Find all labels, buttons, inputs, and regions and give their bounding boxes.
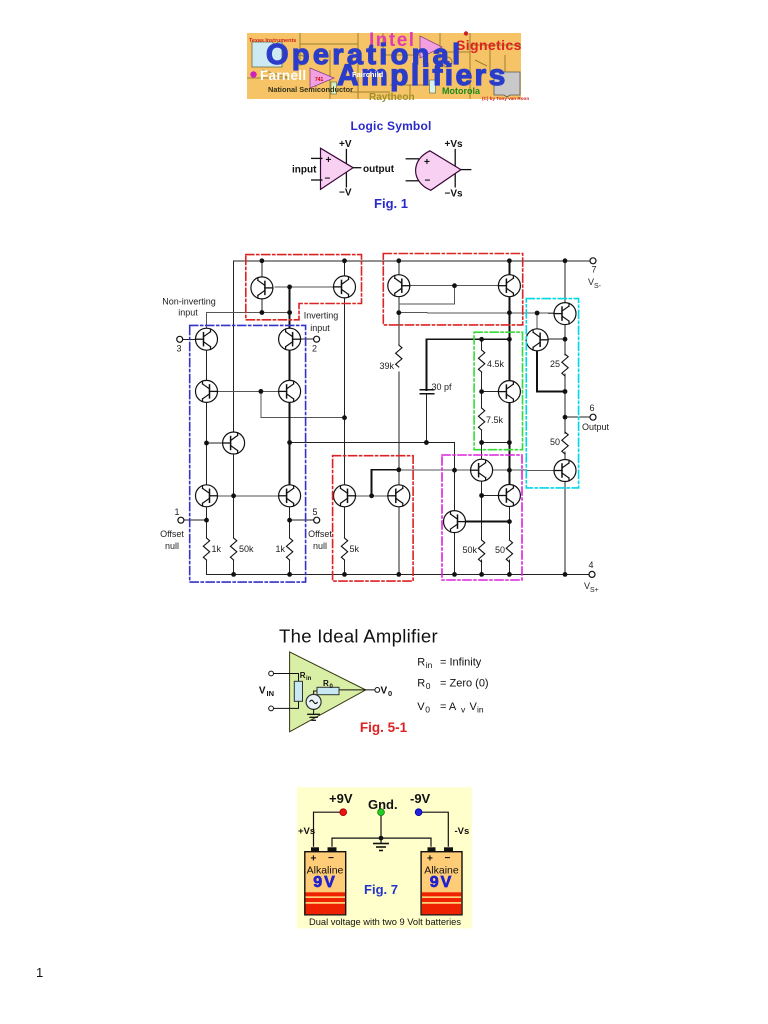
terminal +9V red [340, 809, 347, 816]
capacitor C1 30pf plates [420, 389, 434, 391]
svg-text:-Vs: -Vs [455, 826, 470, 837]
box input stage blue [190, 325, 306, 582]
svg-text:50k: 50k [462, 545, 477, 555]
wire Q4 base to pin2 [301, 338, 314, 340]
op-amp A triangle [321, 148, 354, 189]
junction dot ground [379, 836, 384, 841]
pin 2 terminal [314, 336, 320, 342]
wire input top [274, 674, 299, 682]
svg-text:50: 50 [495, 545, 505, 555]
svg-text:50: 50 [550, 437, 560, 447]
svg-text:= Zero (0): = Zero (0) [440, 678, 489, 690]
wire bottom rail V- [207, 573, 589, 575]
op-amp A supply line [345, 149, 347, 188]
pin 3 terminal [177, 336, 183, 342]
svg-text:1: 1 [174, 507, 179, 517]
wire Q17 base loop [372, 470, 399, 496]
wire Q20 base right [466, 521, 510, 523]
svg-text:0: 0 [425, 705, 430, 715]
svg-text:Fig. 5-1: Fig. 5-1 [360, 720, 408, 735]
svg-text:+: + [311, 854, 317, 865]
svg-text:3: 3 [176, 344, 181, 354]
svg-text:output: output [363, 164, 395, 175]
transistor Q18 [388, 485, 410, 507]
svg-text:+V: +V [339, 139, 352, 150]
wire Gnd down [380, 816, 382, 839]
banner chip grey [494, 72, 520, 97]
svg-text:5: 5 [312, 507, 317, 517]
wire Q13 base left [482, 391, 499, 393]
wire Q12 collector to rail [508, 261, 510, 275]
svg-text:R: R [300, 671, 306, 680]
wire Q11 emitter down [398, 297, 400, 345]
wire Q20 emitter to rail [454, 533, 456, 575]
svg-text:−: − [325, 174, 331, 185]
svg-text:Offset: Offset [160, 529, 184, 539]
resistor R9 50 [506, 540, 512, 562]
pin 1 terminal [178, 517, 184, 523]
wire Q3 collector up [206, 313, 208, 329]
svg-text:50k: 50k [239, 544, 254, 554]
svg-text:Non-inverting: Non-inverting [162, 297, 216, 307]
wire R0 to output [339, 689, 375, 691]
wire resistor R3 bottom [289, 560, 291, 574]
wire +9V to +Vs [314, 812, 341, 847]
wire resistor R5 bottom run [398, 372, 400, 470]
wire resistor R1 bottom [206, 560, 208, 574]
wire Q20 column top [454, 470, 456, 510]
wire capacitor C1 bottom [425, 394, 427, 442]
op-amp B input wire top [406, 158, 419, 160]
svg-text:= Infinity: = Infinity [440, 657, 482, 669]
svg-text:+: + [326, 155, 332, 166]
wire Q21 base left [482, 495, 499, 497]
ground symbol [313, 709, 315, 714]
battery right stripes [422, 892, 462, 896]
banner small green component [331, 82, 337, 94]
svg-text:The Ideal Amplifier: The Ideal Amplifier [279, 626, 438, 647]
wire top rail V+ [234, 261, 590, 432]
wire Q10 emitter to R3 [289, 507, 291, 538]
wire Q17-Q18 base link [356, 495, 388, 497]
wire 7.5k bottom [481, 430, 483, 459]
wire Q15 collector up [536, 313, 538, 329]
svg-text:30 pf: 30 pf [432, 382, 453, 392]
svg-text:+: + [427, 854, 433, 865]
wire Q7 base left [207, 442, 223, 444]
transistor Q2 [334, 276, 356, 298]
wire output stub [565, 416, 589, 418]
wire input bottom [274, 701, 299, 708]
box current mirror red 2 [383, 254, 522, 325]
box level shift green [474, 332, 522, 450]
op-amp B body [416, 151, 461, 191]
svg-text:in: in [306, 676, 312, 682]
transistor Q8 [334, 485, 356, 507]
svg-text:1k: 1k [275, 544, 285, 554]
wire resistor R4 bottom [344, 560, 346, 574]
resistor R4 5k [341, 538, 347, 560]
wire Q11 base tie [399, 286, 455, 304]
wire Q4 emitter to Q6 [289, 350, 291, 380]
wire green box bottom link [482, 442, 510, 444]
transistor Q4 [279, 328, 301, 350]
transistor Q20 [444, 511, 466, 533]
transistor Q19 [471, 459, 493, 481]
wire Q21 emitter to 50 [508, 507, 510, 541]
svg-text:0: 0 [388, 689, 392, 698]
svg-text:−: − [328, 853, 334, 864]
svg-text:7.5k: 7.5k [486, 415, 504, 425]
svg-text:1k: 1k [212, 544, 222, 554]
transistor Q14 [554, 303, 576, 325]
wire Q2 collector to rail [344, 261, 346, 276]
op-amp A input wire top [311, 157, 323, 159]
box bias red 3 [333, 456, 414, 581]
op-amp B output wire [461, 169, 472, 171]
svg-text:Output: Output [582, 422, 610, 432]
wire Q19 emitter down [481, 481, 483, 540]
svg-text:R: R [323, 679, 329, 688]
svg-text:9V: 9V [430, 874, 454, 891]
svg-text:S+: S+ [590, 587, 599, 594]
pin 7 terminal [590, 258, 596, 264]
resistor R7 7.5k [478, 408, 484, 430]
banner magenta dot [250, 71, 256, 77]
wire Q18 emitter to rail [398, 507, 400, 575]
transistor Q9 [196, 485, 218, 507]
wire source to R0 [314, 691, 317, 694]
wire Q1 collector to rail [261, 261, 263, 277]
junction dots [204, 258, 567, 576]
svg-text:Inverting: Inverting [304, 311, 339, 321]
svg-text:5k: 5k [350, 544, 360, 554]
ac source V [306, 694, 321, 709]
wire Q15 emitter to output node [537, 351, 565, 392]
transistor Q10 [279, 485, 301, 507]
banner red dot [464, 31, 468, 35]
svg-text:+Vs: +Vs [445, 139, 464, 150]
svg-text:Logic Symbol: Logic Symbol [350, 119, 431, 133]
transistor Q6 [279, 380, 301, 402]
svg-text:741: 741 [315, 77, 324, 83]
op-amp B input wire bottom [406, 180, 419, 182]
resistor R11 50 [562, 432, 568, 454]
resistor R3 1k [286, 538, 292, 560]
banner background [247, 33, 521, 99]
wire Q5-Q6 base link [218, 390, 279, 392]
resistor R10 25 [562, 354, 568, 376]
svg-text:= A: = A [440, 701, 457, 713]
svg-text:0: 0 [426, 681, 431, 691]
wire mirror base drop to Q2 collector [261, 391, 345, 417]
svg-text:Signetics: Signetics [456, 37, 522, 53]
svg-text:V: V [417, 701, 425, 713]
wire intermediate bus H14 [290, 443, 455, 471]
op-amp A input wire bottom [311, 179, 323, 181]
wire Q5 emitter chain down [206, 402, 208, 484]
box current mirror red 1 [246, 255, 362, 320]
op-amp A output wire [353, 167, 361, 169]
svg-text:Fig. 1: Fig. 1 [374, 196, 408, 211]
battery right terminal - [444, 847, 453, 851]
wire Q9-Q10 base link [218, 495, 279, 497]
transistor Q16 [554, 460, 576, 482]
svg-text:Raytheon: Raytheon [369, 92, 415, 103]
svg-text:V: V [259, 685, 266, 696]
svg-text:2: 2 [312, 344, 317, 354]
wire Q1-Q2 base link [275, 286, 334, 288]
wire Q3 emitter to Q5 [206, 350, 208, 380]
banner chip light blue [252, 42, 282, 67]
wire resistor R2 bottom [233, 560, 235, 574]
wire drive bus to Q19 base [399, 469, 471, 471]
wire Q19 to Q16 base [493, 469, 554, 471]
svg-text:+Vs: +Vs [298, 826, 315, 837]
battery right terminal + [428, 847, 436, 851]
svg-text:Motorola: Motorola [442, 86, 481, 96]
transistor Q7 [223, 432, 245, 454]
output terminal V0 [375, 688, 380, 693]
resistor R2 50k [230, 538, 236, 560]
svg-text:−V: −V [339, 188, 352, 199]
resistor Rin body [294, 681, 302, 701]
svg-text:R: R [417, 657, 425, 669]
resistor R1 1k [203, 538, 209, 560]
svg-text:National Semiconductor: National Semiconductor [268, 85, 353, 94]
terminal Gnd green [378, 809, 385, 816]
wire Q8 emitter to R4 [344, 507, 346, 538]
wire Q7 bias column [233, 454, 235, 538]
svg-text:−: − [445, 853, 451, 864]
svg-text:25: 25 [550, 359, 560, 369]
wire pin5 offset null [290, 519, 314, 521]
pin 4 terminal [589, 571, 595, 577]
pin 5 terminal [314, 517, 320, 523]
resistor R5 39k [396, 345, 402, 367]
wire Q16 emitter to rail [564, 482, 566, 575]
op-amp B supply line [454, 149, 456, 188]
svg-text:v: v [461, 705, 466, 715]
banner small cyan component [430, 80, 436, 93]
wire stage bus H3 [399, 312, 554, 314]
svg-text:9V: 9V [313, 874, 337, 891]
wire resistor R8 bottom [481, 560, 483, 574]
input terminal top [269, 671, 274, 676]
svg-text:input: input [178, 308, 198, 318]
wire base junction down to Q4 [289, 287, 291, 328]
wire 25 bottom to output node [564, 374, 566, 434]
wire pin3 to Q3 base [183, 338, 195, 340]
battery left stripes [306, 892, 346, 896]
banner circuit traces [247, 33, 521, 99]
wire Q15 base right [548, 338, 565, 340]
box output stage cyan [526, 299, 578, 488]
svg-text:in: in [426, 660, 433, 670]
svg-text:Dual voltage with two 9 Volt b: Dual voltage with two 9 Volt batteries [309, 917, 461, 927]
wire Q18 collector up [398, 470, 400, 485]
transistor Q13 [498, 381, 520, 403]
wire 4.5k top tie [481, 339, 483, 350]
svg-text:(C) by Tony van Roon: (C) by Tony van Roon [482, 96, 529, 101]
resistor R6 4.5k [478, 350, 484, 372]
svg-text:4.5k: 4.5k [487, 359, 505, 369]
wire Q11 collector to rail [398, 261, 400, 275]
input terminal bottom [269, 706, 274, 711]
svg-text:7: 7 [591, 265, 596, 275]
battery left body [305, 852, 346, 915]
svg-text:null: null [313, 541, 327, 551]
transistor Q15 [526, 329, 548, 351]
wire Q14 base left [537, 312, 554, 314]
resistor R8 50k [478, 540, 484, 562]
transistor Q11 [388, 275, 410, 297]
wire -9V to -Vs [422, 812, 449, 847]
wire Q6 emitter chain down [289, 402, 291, 484]
wire Q1 emitter down [261, 299, 263, 313]
svg-text:Offset: Offset [308, 529, 332, 539]
wire Q9 emitter to rail [206, 507, 208, 538]
svg-text:input: input [292, 165, 317, 176]
svg-text:1: 1 [36, 965, 43, 980]
battery right body [421, 852, 462, 915]
pin 6 terminal [590, 414, 596, 420]
transistor Q12 [498, 275, 520, 297]
svg-text:in: in [477, 705, 484, 715]
panel background [297, 787, 472, 928]
wire Q14 collector to rail [564, 261, 566, 303]
wire compensation top [426, 339, 509, 390]
wire Q12 emitter main column [508, 297, 510, 381]
amplifier triangle [290, 652, 366, 732]
battery left terminal + [311, 847, 319, 851]
wire emitter bus H2 [207, 312, 290, 314]
transistor Q5 [196, 380, 218, 402]
wire 50 to Q16 [564, 452, 566, 460]
svg-text:−: − [425, 176, 431, 187]
battery left terminal - [328, 847, 337, 851]
wire battery commons [332, 838, 431, 847]
wire resistor R9 bottom [508, 560, 510, 574]
svg-text:input: input [310, 323, 330, 333]
svg-text:−Vs: −Vs [445, 189, 464, 200]
wire Q2 emitter down to Q8 [344, 298, 346, 485]
wire 4.5k to 7.5k [481, 372, 483, 408]
svg-text:null: null [165, 541, 179, 551]
svg-text:V: V [381, 686, 388, 697]
terminal -9V blue [415, 809, 422, 816]
svg-text:4: 4 [588, 560, 593, 570]
svg-text:Farnell: Farnell [260, 68, 306, 83]
svg-text:R: R [417, 678, 425, 690]
transistor Q1 [251, 277, 273, 299]
resistor R0 body [317, 687, 339, 694]
wire Q11-Q12 base link [410, 285, 499, 287]
svg-text:+: + [424, 157, 430, 168]
svg-text:6: 6 [589, 403, 594, 413]
banner op-amp triangle top [420, 36, 442, 58]
transistor Q21 [498, 485, 520, 507]
wire Q14 emitter to 25 [564, 325, 566, 355]
svg-text:39k: 39k [379, 361, 394, 371]
box gain stage magenta [442, 455, 522, 580]
svg-text:+9V: +9V [329, 791, 353, 806]
wire Q13 emitter down [508, 403, 510, 485]
svg-text:Fairchild: Fairchild [352, 70, 384, 79]
svg-text:Fig. 7: Fig. 7 [364, 882, 398, 897]
svg-text:S-: S- [594, 283, 602, 290]
ground symbol [380, 838, 382, 843]
svg-text:IN: IN [267, 689, 275, 698]
svg-text:-9V: -9V [410, 791, 431, 806]
banner op-amp triangle 741 [310, 68, 334, 88]
wire pin1 offset null [184, 519, 206, 521]
transistor Q3 [196, 328, 218, 350]
